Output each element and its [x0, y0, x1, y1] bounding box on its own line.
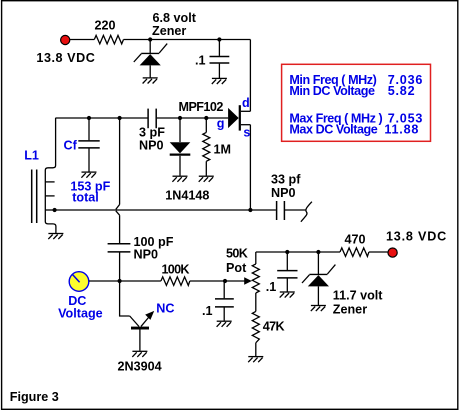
svg-text:NP0: NP0 [134, 248, 159, 262]
svg-text:Voltage: Voltage [58, 306, 103, 320]
svg-text:3 pF: 3 pF [139, 126, 165, 140]
svg-text:NP0: NP0 [271, 186, 296, 200]
svg-text:6.8 volt: 6.8 volt [153, 11, 197, 25]
svg-text:47K: 47K [263, 319, 285, 333]
svg-text:d: d [242, 96, 250, 110]
svg-text:2N3904: 2N3904 [118, 360, 162, 374]
svg-text:13.8 VDC: 13.8 VDC [36, 51, 95, 65]
svg-text:MPF102: MPF102 [179, 100, 224, 114]
svg-text:Zener: Zener [333, 303, 367, 317]
svg-text:1N4148: 1N4148 [165, 188, 209, 202]
svg-text:100K: 100K [162, 263, 190, 277]
svg-text:g: g [217, 117, 225, 131]
svg-text:Cf: Cf [64, 138, 78, 152]
svg-text:total: total [72, 191, 99, 205]
svg-text:.1: .1 [266, 280, 277, 294]
svg-text:Pot: Pot [226, 261, 247, 275]
svg-text:s: s [243, 126, 250, 140]
svg-text:NC: NC [156, 302, 174, 316]
svg-text:Max DC Voltage: Max DC Voltage [289, 123, 377, 137]
svg-text:33 pf: 33 pf [271, 173, 301, 187]
svg-text:470: 470 [345, 233, 366, 247]
svg-text:5.82: 5.82 [388, 84, 416, 98]
svg-text:.1: .1 [195, 54, 206, 68]
svg-text:1M: 1M [214, 143, 232, 157]
svg-text:13.8 VDC: 13.8 VDC [386, 230, 447, 244]
svg-text:Figure 3: Figure 3 [10, 390, 59, 404]
svg-text:NP0: NP0 [139, 139, 164, 153]
svg-text:Min DC Voltage: Min DC Voltage [289, 84, 375, 98]
svg-text:220: 220 [95, 18, 116, 32]
svg-text:50K: 50K [226, 247, 248, 261]
svg-text:Zener: Zener [152, 24, 186, 38]
svg-text:11.88: 11.88 [384, 123, 419, 137]
svg-text:11.7 volt: 11.7 volt [333, 289, 384, 303]
svg-text:L1: L1 [24, 148, 39, 162]
svg-text:.1: .1 [202, 304, 213, 318]
